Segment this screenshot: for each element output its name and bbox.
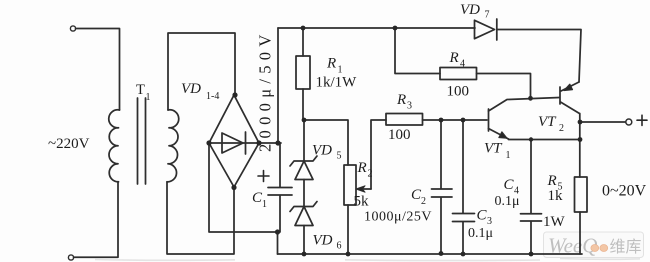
svg-text:R: R bbox=[547, 173, 557, 189]
label C1 plus bbox=[258, 171, 269, 182]
svg-text:100: 100 bbox=[447, 84, 470, 100]
potentiometer R2 bbox=[344, 165, 356, 205]
svg-text:2: 2 bbox=[421, 196, 426, 207]
capacitor C2 bbox=[432, 120, 453, 254]
svg-text:2000μ/50V: 2000μ/50V bbox=[256, 29, 275, 152]
zener diode VD5 bbox=[303, 120, 305, 161]
svg-text:VD: VD bbox=[181, 81, 201, 97]
wire minus drop to rail bbox=[277, 232, 279, 254]
wire VT2 collector down to R5 bbox=[579, 114, 581, 178]
junction rail R2 bbox=[346, 252, 351, 257]
scan smudge marks bottom bbox=[95, 259, 640, 261]
transistor VT2 bbox=[559, 87, 561, 104]
junction bridge plus vertex bbox=[256, 140, 261, 145]
svg-text:1: 1 bbox=[146, 92, 151, 103]
resistor R1 bbox=[302, 28, 304, 56]
bridge inner diode bbox=[222, 132, 246, 154]
capacitor C3 bbox=[453, 120, 475, 254]
transistor VT1 bbox=[488, 109, 490, 131]
junction rail C2 bbox=[439, 251, 444, 256]
diode VD7 bbox=[475, 19, 497, 40]
svg-text:1-4: 1-4 bbox=[206, 91, 219, 102]
svg-text:5k: 5k bbox=[354, 194, 370, 210]
resistor R4 bbox=[440, 68, 477, 80]
junction bridge AC1 vertex bbox=[232, 92, 237, 97]
svg-text:5: 5 bbox=[337, 151, 342, 162]
svg-text:1k/1W: 1k/1W bbox=[316, 75, 358, 91]
svg-text:3: 3 bbox=[407, 101, 412, 112]
resistor R5 bbox=[575, 177, 588, 212]
wire bridge minus bbox=[209, 143, 278, 232]
junction C3 top bbox=[461, 118, 466, 123]
terminal output plus bbox=[626, 119, 632, 125]
svg-text:C: C bbox=[504, 177, 515, 193]
wire VT1 emitter to output node bbox=[509, 139, 581, 141]
svg-text:1: 1 bbox=[262, 199, 267, 210]
junction bridge minus vertex bbox=[206, 140, 211, 145]
svg-text:7: 7 bbox=[485, 10, 490, 21]
bridge rectifier VD1-4 diamond bbox=[209, 95, 259, 187]
svg-text:100: 100 bbox=[388, 127, 411, 143]
junction VT2 base node bbox=[528, 96, 533, 101]
bridge axis wire bbox=[209, 142, 259, 144]
wire bottom rail bbox=[278, 253, 583, 255]
junction VT1 emitter node bbox=[578, 137, 583, 142]
wire secondary bottom to bridge AC2 bbox=[167, 182, 234, 254]
potentiometer R2 wiper arrow bbox=[359, 188, 371, 190]
wire R4 to VT2 base node bbox=[477, 74, 531, 99]
wire R4 branch from rail bbox=[395, 28, 440, 74]
terminal input top bbox=[70, 26, 75, 31]
wire bbox=[74, 182, 118, 257]
wire bbox=[76, 29, 120, 111]
junction rail C4 bbox=[529, 252, 534, 257]
svg-text:2: 2 bbox=[559, 123, 564, 134]
svg-text:1: 1 bbox=[506, 150, 511, 161]
junction output node bbox=[578, 120, 583, 125]
svg-text:~220V: ~220V bbox=[48, 136, 90, 152]
wire secondary top to bridge AC1 bbox=[168, 33, 235, 110]
svg-text:0~20V: 0~20V bbox=[602, 183, 647, 200]
svg-text:1000μ/25V: 1000μ/25V bbox=[364, 210, 432, 225]
svg-text:VT: VT bbox=[538, 114, 557, 130]
junction C4 top bbox=[529, 137, 533, 141]
wire output node to terminal bbox=[580, 121, 626, 123]
wire top rail bbox=[278, 27, 475, 29]
watermark WeeQoo box bbox=[544, 232, 644, 258]
svg-text:VD: VD bbox=[460, 2, 480, 18]
svg-text:4: 4 bbox=[460, 59, 465, 70]
svg-text:2: 2 bbox=[368, 169, 373, 180]
svg-text:1k: 1k bbox=[548, 188, 564, 204]
junction C2 top bbox=[439, 118, 444, 123]
terminal input bottom bbox=[68, 255, 73, 260]
junction C1 minus bbox=[275, 229, 280, 234]
svg-text:R: R bbox=[326, 56, 336, 72]
node A zener top bbox=[302, 118, 307, 123]
svg-text:R: R bbox=[396, 92, 406, 108]
label output plus bbox=[637, 115, 647, 125]
svg-text:0.1μ: 0.1μ bbox=[468, 226, 493, 241]
wire node A to R2 top bbox=[304, 120, 348, 165]
transformer T1 secondary winding bbox=[167, 110, 179, 182]
svg-text:T: T bbox=[136, 82, 145, 98]
svg-text:VD: VD bbox=[312, 143, 332, 159]
transformer T1 primary winding bbox=[109, 110, 120, 182]
svg-text:R: R bbox=[449, 50, 459, 66]
resistor R3 bbox=[386, 114, 423, 126]
capacitor C4 bbox=[521, 140, 542, 255]
svg-text:维库: 维库 bbox=[610, 238, 642, 256]
wire R3 to VT1 base bbox=[423, 119, 488, 121]
junction bridge AC2 vertex bbox=[231, 185, 236, 190]
svg-text:VD: VD bbox=[313, 233, 333, 249]
wire VD7 to VT2 emitter bbox=[497, 30, 581, 83]
zener diode VD6 bbox=[290, 202, 317, 212]
junction rail C3 bbox=[461, 252, 466, 257]
svg-text:0.1μ: 0.1μ bbox=[495, 194, 520, 209]
svg-text:1W: 1W bbox=[543, 214, 566, 230]
junction plus riser bbox=[275, 140, 280, 145]
junction top rail R4 branch bbox=[393, 26, 398, 31]
capacitor C1 bbox=[268, 143, 292, 232]
transformer core bbox=[138, 98, 146, 184]
junction top rail R1 bbox=[301, 26, 306, 31]
svg-text:6: 6 bbox=[337, 241, 342, 252]
svg-text:R: R bbox=[357, 160, 367, 176]
svg-text:C: C bbox=[477, 208, 488, 224]
wire riser to top rail bbox=[277, 28, 279, 143]
wire wiper to R3 bbox=[371, 120, 386, 189]
svg-text:VT: VT bbox=[484, 141, 503, 157]
wire bridge plus to riser and C1 bbox=[259, 142, 281, 144]
junction rail VD6 bbox=[302, 252, 307, 257]
